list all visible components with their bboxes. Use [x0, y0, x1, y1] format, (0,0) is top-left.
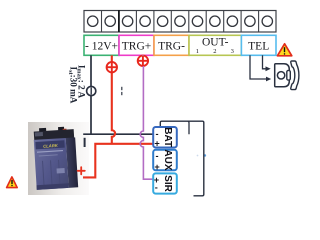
svg-text:+: + [154, 162, 159, 172]
svg-text:-: - [155, 183, 158, 193]
svg-text:-: - [155, 129, 158, 139]
svg-text:- 12V+: - 12V+ [85, 40, 118, 52]
svg-text:TRG-: TRG- [158, 40, 185, 52]
svg-text:TRG+: TRG+ [122, 40, 152, 52]
svg-text:1: 1 [196, 48, 199, 55]
svg-text:+: + [154, 139, 159, 149]
svg-text:OUT-: OUT- [202, 37, 229, 49]
svg-text:AUX: AUX [162, 149, 173, 170]
svg-text:BAT: BAT [162, 127, 173, 147]
svg-text:-: - [155, 151, 158, 161]
svg-text:TEL: TEL [248, 40, 269, 52]
svg-text:SIR: SIR [162, 175, 173, 192]
svg-text:2: 2 [213, 48, 216, 55]
svg-text:3: 3 [231, 48, 234, 55]
svg-text:CLARK: CLARK [43, 143, 59, 149]
